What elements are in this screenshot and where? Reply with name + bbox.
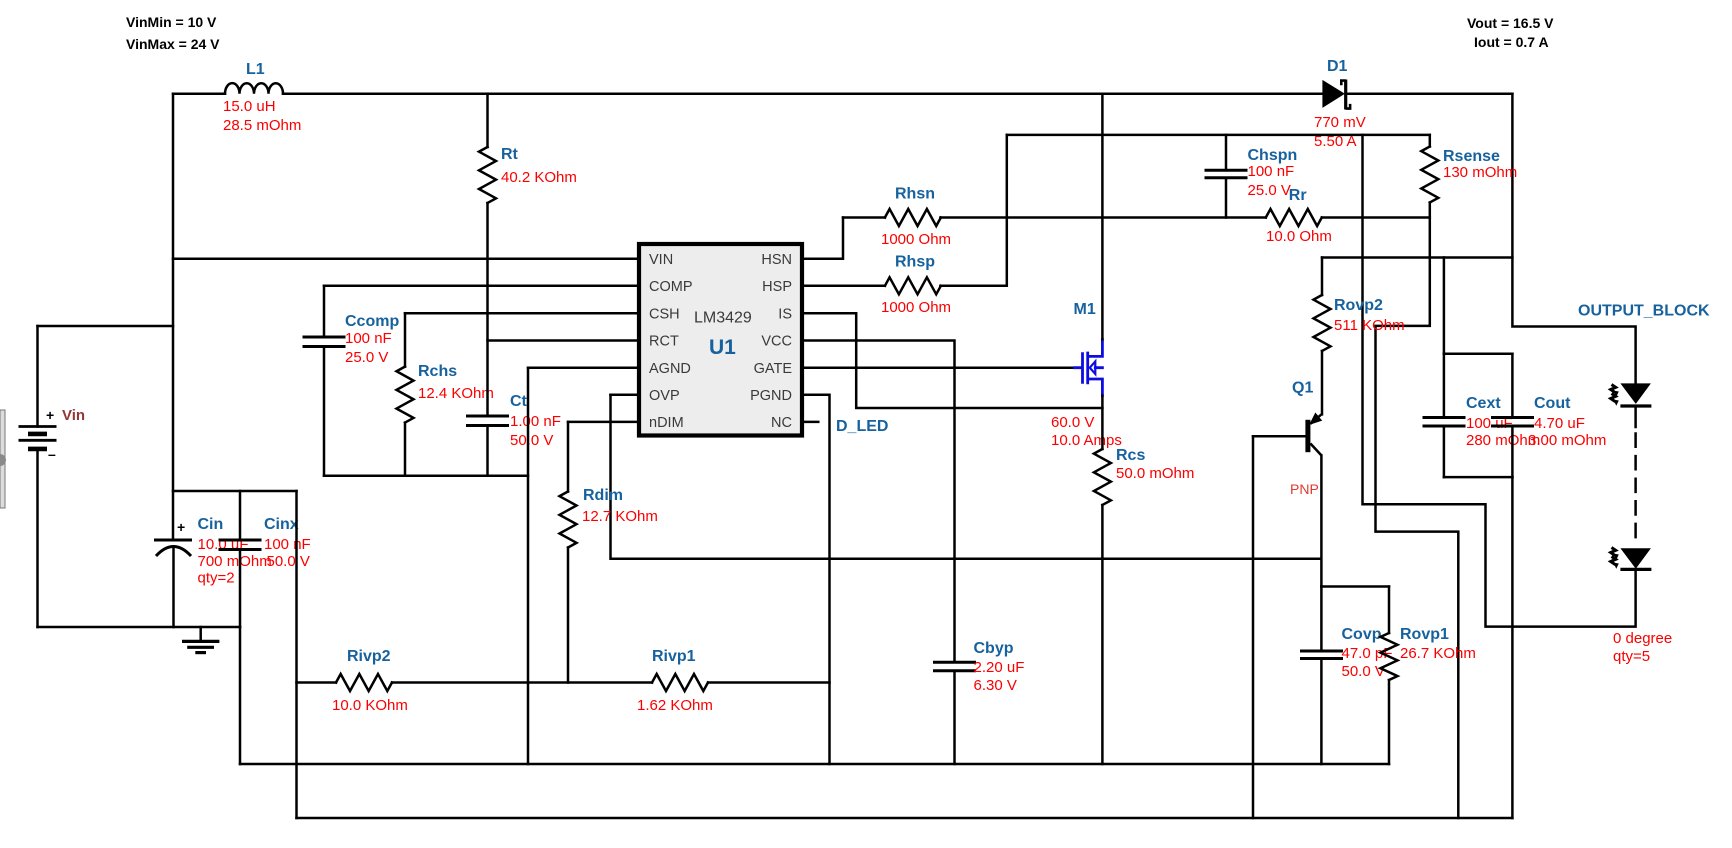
wire output cap riser	[1443, 258, 1446, 354]
wire D1 cathode to output corner	[1346, 92, 1513, 95]
svg-text:Rovp1: Rovp1	[1400, 626, 1449, 643]
LED LED1	[1620, 383, 1651, 404]
svg-text:700 mOhm: 700 mOhm	[198, 553, 272, 570]
svg-text:Q1: Q1	[1292, 380, 1313, 397]
svg-text:Cinx: Cinx	[264, 516, 299, 533]
svg-text:VCC: VCC	[761, 334, 792, 350]
wire pin HSP	[804, 285, 885, 288]
svg-text:15.0 uH: 15.0 uH	[223, 98, 276, 115]
svg-text:Rivp1: Rivp1	[652, 648, 696, 665]
resistor Rr	[1266, 209, 1322, 226]
svg-text:50.0 V: 50.0 V	[1342, 663, 1385, 680]
svg-text:Cext: Cext	[1466, 395, 1501, 412]
wire pin NC stub	[804, 421, 818, 424]
svg-text:10.0 Amps: 10.0 Amps	[1051, 432, 1122, 449]
capacitor Covp	[1320, 587, 1323, 652]
svg-text:Vout = 16.5 V: Vout = 16.5 V	[1467, 15, 1554, 31]
LED LED2	[1620, 548, 1651, 569]
battery Vin	[38, 325, 174, 328]
svg-text:6.30 V: 6.30 V	[974, 677, 1017, 694]
svg-text:VinMin = 10 V: VinMin = 10 V	[126, 14, 217, 30]
svg-text:PGND: PGND	[750, 388, 792, 404]
resistor Rdim	[567, 422, 570, 492]
svg-text:RCT: RCT	[649, 334, 679, 350]
ground	[199, 627, 202, 641]
svg-text:Rcs: Rcs	[1116, 447, 1145, 464]
svg-text:L1: L1	[246, 61, 265, 78]
IC U1 LM3429 box	[639, 244, 802, 436]
wire LED1 lead	[1634, 406, 1637, 427]
wire switch node	[1101, 94, 1104, 340]
wire pin CSH	[405, 312, 637, 315]
svg-text:HSP: HSP	[762, 279, 792, 295]
svg-text:Rivp2: Rivp2	[347, 648, 391, 665]
svg-text:Vin: Vin	[62, 407, 85, 424]
svg-text:25.0 V: 25.0 V	[1248, 182, 1291, 199]
transistor Q1 (PNP)	[1305, 420, 1310, 452]
svg-text:Cin: Cin	[198, 516, 224, 533]
svg-text:Ccomp: Ccomp	[345, 313, 399, 330]
svg-text:4.70 uF: 4.70 uF	[1534, 415, 1585, 432]
svg-text:LM3429: LM3429	[694, 310, 752, 327]
svg-text:1000 Ohm: 1000 Ohm	[881, 299, 951, 316]
wire analog ground bus	[324, 474, 528, 477]
wire HSN sense rail y217	[843, 216, 885, 219]
svg-text:1000 Ohm: 1000 Ohm	[881, 231, 951, 248]
svg-text:12.7 KOhm: 12.7 KOhm	[582, 508, 658, 525]
capacitor Cin (polarized)	[154, 539, 192, 542]
wire output drop	[1512, 94, 1635, 386]
svg-text:28.5 mOhm: 28.5 mOhm	[223, 117, 301, 134]
svg-text:50.0 mOhm: 50.0 mOhm	[1116, 465, 1194, 482]
svg-text:100 nF: 100 nF	[264, 536, 311, 553]
svg-text:IS: IS	[778, 307, 792, 323]
wire divider row	[297, 681, 337, 684]
resistor Rhsp	[885, 277, 941, 294]
svg-text:130 mOhm: 130 mOhm	[1443, 164, 1517, 181]
svg-text:Cbyp: Cbyp	[974, 640, 1014, 657]
resistor Rhsn	[885, 209, 941, 226]
inductor L1	[225, 83, 283, 94]
svg-text:60.0 V: 60.0 V	[1051, 414, 1094, 431]
svg-text:2.20 uF: 2.20 uF	[974, 659, 1025, 676]
resistor Rivp2	[336, 674, 392, 691]
svg-text:1.62 KOhm: 1.62 KOhm	[637, 697, 713, 714]
svg-text:COMP: COMP	[649, 279, 693, 295]
svg-text:+: +	[46, 407, 54, 423]
svg-text:AGND: AGND	[649, 361, 691, 377]
svg-text:Rr: Rr	[1289, 187, 1307, 204]
svg-text:Cout: Cout	[1534, 395, 1571, 412]
wire pin OVP	[611, 393, 638, 396]
svg-text:Rhsp: Rhsp	[895, 254, 935, 271]
resistor Rivp1	[652, 674, 708, 691]
svg-text:770 mV: 770 mV	[1314, 114, 1366, 131]
wire pin VCC	[804, 341, 955, 663]
capacitor Chspn	[1225, 135, 1228, 170]
svg-text:Rt: Rt	[501, 146, 519, 163]
svg-text:VinMax = 24 V: VinMax = 24 V	[126, 36, 220, 52]
resistor Rcs	[1101, 396, 1104, 449]
diode D1 (schottky)	[1322, 80, 1345, 108]
wire top rail to D1	[283, 92, 1322, 95]
svg-text:25.0 V: 25.0 V	[345, 349, 388, 366]
resistor Rovp1	[1388, 587, 1391, 634]
svg-text:100 nF: 100 nF	[345, 330, 392, 347]
svg-text:10.0 KOhm: 10.0 KOhm	[332, 697, 408, 714]
svg-text:U1: U1	[709, 336, 736, 359]
wire battery negative	[38, 626, 241, 629]
resistor Rchs	[404, 313, 407, 366]
svg-text:Rsense: Rsense	[1443, 148, 1500, 165]
left edge scrollbar artifact	[0, 410, 5, 508]
svg-text:3.00 mOhm: 3.00 mOhm	[1528, 432, 1606, 449]
wire ground bus	[240, 763, 1389, 766]
svg-text:+: +	[177, 519, 185, 535]
svg-text:GATE: GATE	[754, 361, 793, 377]
svg-text:OUTPUT_BLOCK: OUTPUT_BLOCK	[1578, 303, 1710, 320]
wire top rail left segment	[173, 92, 225, 95]
svg-text:–: –	[48, 446, 56, 462]
wire LED- bus	[297, 817, 1513, 820]
svg-text:26.7 KOhm: 26.7 KOhm	[1400, 645, 1476, 662]
svg-text:HSN: HSN	[761, 252, 792, 268]
wire HSP sense rail y135	[1007, 134, 1430, 137]
wire pin AGND	[528, 367, 637, 370]
svg-text:Rdim: Rdim	[583, 487, 623, 504]
capacitor Cbyp	[935, 662, 975, 671]
transistor M1 (NMOS)	[1075, 339, 1103, 395]
svg-text:50.0 V: 50.0 V	[510, 432, 553, 449]
svg-text:nDIM: nDIM	[649, 415, 684, 431]
wire pin IS	[804, 313, 1102, 408]
svg-text:40.2 KOhm: 40.2 KOhm	[501, 169, 577, 186]
svg-text:OVP: OVP	[649, 388, 680, 404]
wire ground bus riser	[239, 627, 242, 764]
svg-text:NC: NC	[771, 415, 792, 431]
svg-text:1.00 nF: 1.00 nF	[510, 413, 561, 430]
resistor Rovp2	[1321, 258, 1324, 296]
svg-text:511 KOhm: 511 KOhm	[1334, 317, 1405, 334]
wire pin GATE	[804, 366, 1075, 369]
wire Vin sense riser	[295, 491, 298, 818]
svg-text:qty=2: qty=2	[198, 570, 235, 587]
wire pin VIN	[173, 258, 637, 261]
wire output cap bottom rail	[1444, 476, 1513, 479]
capacitor Cext	[1443, 354, 1446, 418]
capacitor Cout	[1511, 354, 1514, 418]
wire pin COMP	[324, 285, 637, 288]
svg-text:Ct: Ct	[510, 393, 528, 410]
svg-text:0 degree: 0 degree	[1613, 630, 1672, 647]
svg-text:M1: M1	[1074, 301, 1096, 318]
wire pin PGND	[804, 395, 830, 764]
wire LED return staircase	[1363, 135, 1636, 627]
capacitor Cinx	[239, 491, 242, 540]
wire Rovp2 top rail	[1322, 256, 1512, 259]
svg-text:Iout = 0.7 A: Iout = 0.7 A	[1474, 34, 1549, 50]
svg-text:Chspn: Chspn	[1248, 147, 1298, 164]
capacitor Ct	[468, 416, 508, 426]
svg-text:10.0 Ohm: 10.0 Ohm	[1266, 228, 1332, 245]
svg-text:Covp: Covp	[1342, 626, 1382, 643]
wire dashed LED string	[1634, 434, 1637, 547]
wire pin HSN	[804, 218, 843, 259]
wire pin RCT	[488, 339, 638, 342]
wire left input vertical	[172, 94, 175, 540]
wire input cap box top	[173, 490, 297, 493]
svg-text:qty=5: qty=5	[1613, 648, 1650, 665]
capacitor Ccomp	[323, 286, 326, 337]
wire Covp/Rovp1 top rail	[1321, 585, 1389, 588]
svg-text:D_LED: D_LED	[836, 418, 888, 435]
wire pin nDIM	[568, 421, 637, 424]
svg-text:PNP: PNP	[1290, 481, 1319, 497]
resistor Rt	[486, 94, 489, 147]
svg-text:50.0 V: 50.0 V	[267, 553, 310, 570]
svg-text:12.4 KOhm: 12.4 KOhm	[418, 385, 494, 402]
svg-text:VIN: VIN	[649, 252, 673, 268]
svg-text:Rovp2: Rovp2	[1334, 297, 1383, 314]
svg-text:100 nF: 100 nF	[1248, 163, 1295, 180]
svg-text:D1: D1	[1327, 58, 1348, 75]
resistor Rsense	[1429, 135, 1432, 147]
svg-text:CSH: CSH	[649, 307, 680, 323]
svg-text:Rhsn: Rhsn	[895, 186, 935, 203]
svg-text:Rchs: Rchs	[418, 363, 457, 380]
